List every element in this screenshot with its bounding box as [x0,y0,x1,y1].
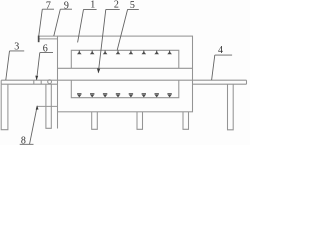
svg-text:2: 2 [114,0,119,11]
belt segment tick A [33,80,35,84]
left table outer leg [1,84,8,130]
label 4 leader [212,55,233,80]
left table underside [1,83,57,85]
spray nozzle top 5 [129,51,134,55]
right table underside [193,83,247,85]
upper spray pipe chamber rect [71,50,179,68]
spray nozzle top 2 [90,51,95,55]
outer housing box [58,36,193,112]
right table leg [228,84,234,130]
arrowhead leader 2 [97,68,100,73]
spray nozzle bottom 2 [90,93,94,97]
spray nozzle top 6 [142,51,147,55]
belt segment tick B [40,80,42,84]
spray nozzle bottom 7 [155,93,159,97]
svg-text:4: 4 [218,45,223,56]
leader lines [6,9,232,144]
spray nozzle bottom 3 [103,93,107,97]
spray nozzle top 7 [154,51,159,55]
digit labels [14,0,223,147]
left wall leg extension [57,112,59,129]
conveyor channel upper line [58,67,193,69]
right table right edge [246,80,248,84]
conveyor roller circle [48,80,52,84]
left table left edge [0,80,2,84]
svg-text:1: 1 [90,0,95,11]
spray nozzle top 8 [167,51,172,55]
spray nozzle bottom 8 [167,93,171,97]
label 1 leader [78,9,97,42]
label 3 leader [6,51,24,80]
spray nozzle bottom 4 [116,93,120,97]
spray nozzle bottom 5 [129,93,133,97]
svg-text:5: 5 [130,0,135,11]
spray nozzle top 3 [103,51,108,55]
box leg 3 [183,112,189,130]
box leg 1 [92,112,98,130]
spray nozzle bottom 6 [142,93,146,97]
svg-text:3: 3 [14,42,19,53]
label 2 leader [98,9,119,72]
spray nozzle top 4 [116,51,121,55]
label 9 leader [54,9,72,36]
svg-text:8: 8 [21,136,26,145]
label 8 leader [20,107,37,144]
spray nozzle bottom 1 [77,93,81,97]
svg-text:9: 9 [64,0,69,11]
label 6 leader [37,53,53,80]
label 5 leader [117,9,139,50]
box leg 2 [137,112,143,130]
svg-text:7: 7 [46,0,51,11]
mounting plate top-left ledge [38,36,58,39]
mounting pin block [38,36,40,43]
svg-text:6: 6 [43,43,48,54]
arrowhead leader 8 [36,105,39,109]
conveyor belt line [1,79,246,81]
arrowhead leader 6 [35,76,38,81]
label 7 leader [39,9,54,35]
lower chamber rect [71,80,179,98]
pipe bracket flange [37,105,59,107]
drain pipe / inner table leg [46,84,51,128]
spray nozzle top 1 [77,51,82,55]
